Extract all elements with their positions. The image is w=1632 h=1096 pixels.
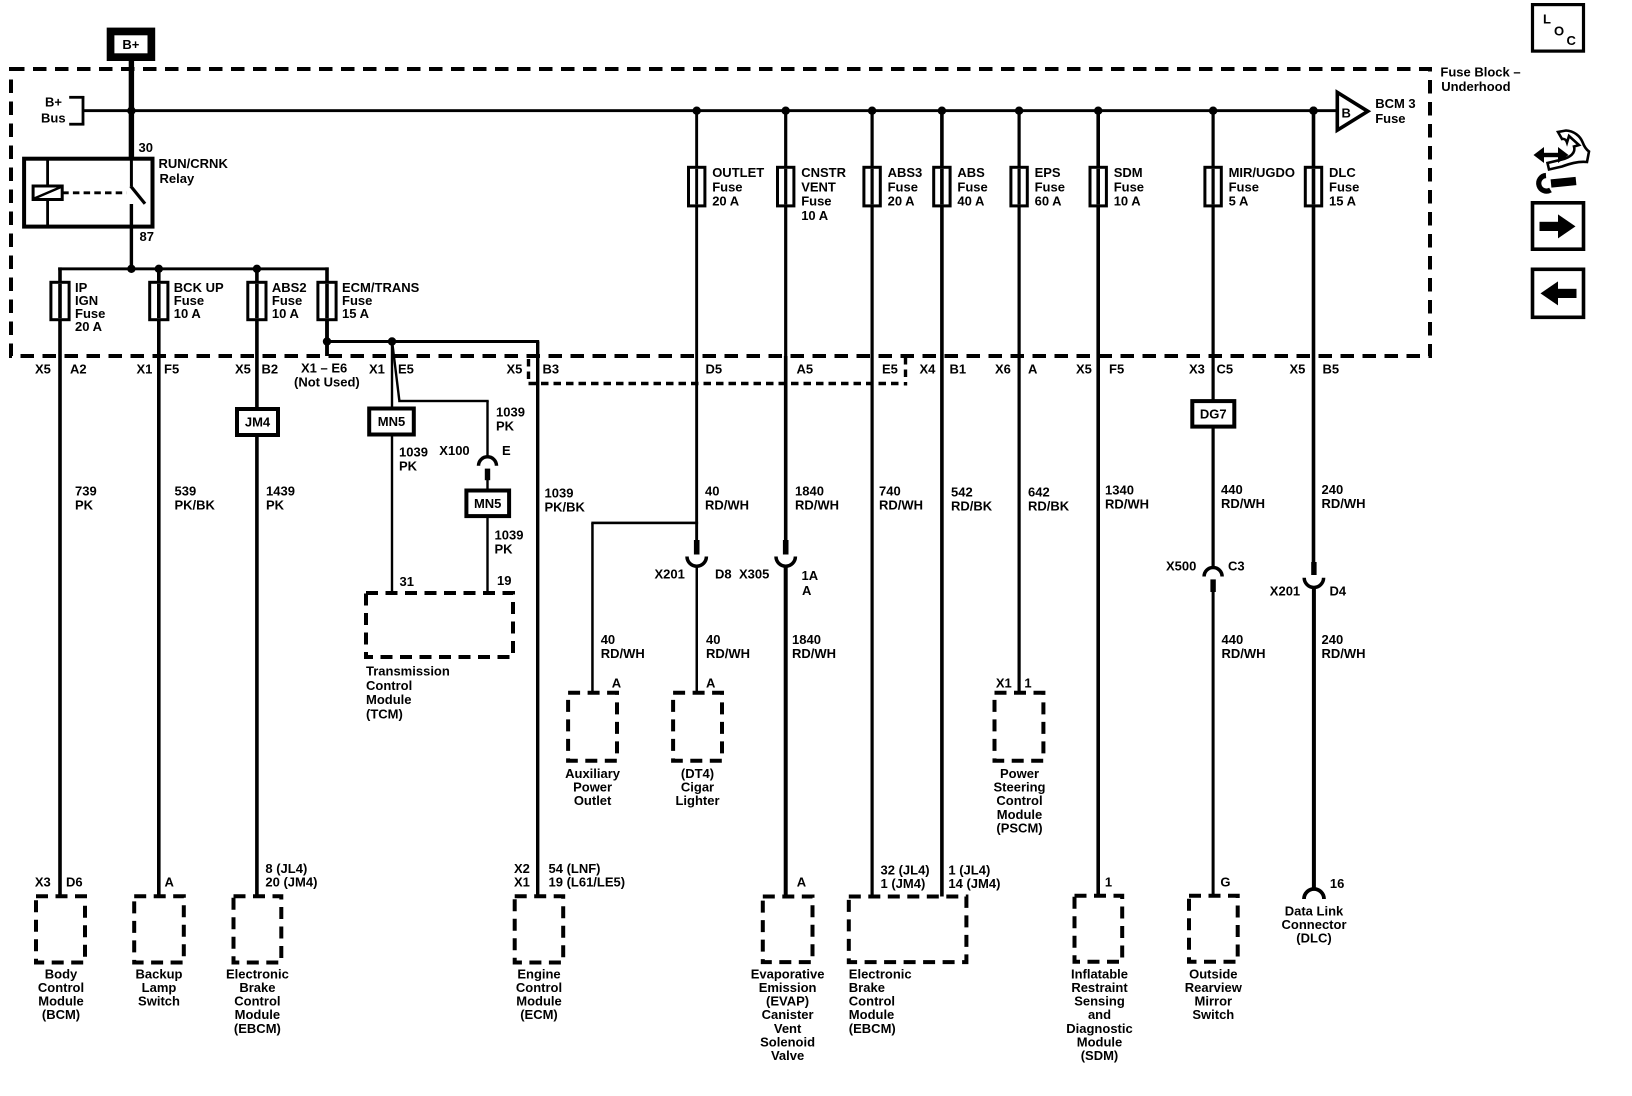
svg-text:Fuse: Fuse <box>1114 179 1144 194</box>
svg-text:539: 539 <box>175 484 197 499</box>
svg-text:Control: Control <box>366 678 412 693</box>
svg-text:OUTLET: OUTLET <box>712 165 764 180</box>
svg-text:A5: A5 <box>797 362 814 377</box>
svg-text:739: 739 <box>75 484 97 499</box>
svg-text:19: 19 <box>497 573 511 588</box>
svg-text:PK/BK: PK/BK <box>175 498 216 513</box>
svg-text:X5: X5 <box>35 362 51 377</box>
svg-text:F5: F5 <box>1109 362 1124 377</box>
svg-text:PK: PK <box>399 459 418 474</box>
svg-text:RD/BK: RD/BK <box>951 499 993 514</box>
svg-text:ABS: ABS <box>957 165 985 180</box>
svg-text:1840: 1840 <box>795 484 824 499</box>
svg-text:1439: 1439 <box>266 484 295 499</box>
svg-text:Relay: Relay <box>160 171 195 186</box>
svg-text:(EBCM): (EBCM) <box>234 1021 281 1036</box>
svg-text:PK/BK: PK/BK <box>545 500 586 515</box>
svg-text:EPS: EPS <box>1035 165 1061 180</box>
svg-text:1A: 1A <box>802 568 819 583</box>
svg-text:Module: Module <box>366 692 412 707</box>
svg-text:X5: X5 <box>235 362 251 377</box>
svg-text:A: A <box>612 676 622 691</box>
svg-text:542: 542 <box>951 485 973 500</box>
svg-text:A: A <box>165 875 175 890</box>
svg-text:15 A: 15 A <box>342 306 370 321</box>
svg-text:E5: E5 <box>398 362 414 377</box>
svg-text:31: 31 <box>400 574 414 589</box>
svg-text:B: B <box>1342 106 1351 121</box>
svg-text:240: 240 <box>1322 482 1344 497</box>
svg-text:(ECM): (ECM) <box>520 1007 558 1022</box>
svg-text:F5: F5 <box>164 362 179 377</box>
svg-text:X4: X4 <box>920 362 937 377</box>
svg-text:L: L <box>1543 11 1551 26</box>
svg-text:Underhood: Underhood <box>1441 79 1510 94</box>
svg-text:PK: PK <box>496 419 515 434</box>
svg-text:Fuse Block –: Fuse Block – <box>1440 65 1520 80</box>
svg-text:A: A <box>802 583 812 598</box>
svg-text:440: 440 <box>1221 482 1243 497</box>
svg-text:1039: 1039 <box>496 405 525 420</box>
svg-text:1039: 1039 <box>495 528 524 543</box>
svg-text:(PSCM): (PSCM) <box>996 820 1042 835</box>
svg-text:X5: X5 <box>1076 362 1092 377</box>
svg-text:60 A: 60 A <box>1035 194 1063 209</box>
svg-text:E5: E5 <box>882 362 898 377</box>
svg-text:10 A: 10 A <box>174 306 202 321</box>
svg-text:G: G <box>1220 875 1230 890</box>
svg-text:X100: X100 <box>439 443 469 458</box>
svg-text:(EBCM): (EBCM) <box>849 1021 896 1036</box>
svg-text:1039: 1039 <box>399 445 428 460</box>
svg-text:E: E <box>502 443 511 458</box>
svg-text:X305: X305 <box>739 567 769 582</box>
svg-text:RD/WH: RD/WH <box>601 646 645 661</box>
svg-text:X5: X5 <box>1290 362 1306 377</box>
svg-text:1840: 1840 <box>792 632 821 647</box>
svg-text:B+: B+ <box>45 95 62 110</box>
svg-text:RD/WH: RD/WH <box>795 498 839 513</box>
svg-text:MIR/UGDO: MIR/UGDO <box>1229 165 1295 180</box>
svg-text:642: 642 <box>1028 485 1050 500</box>
svg-text:240: 240 <box>1322 632 1344 647</box>
svg-text:Fuse: Fuse <box>1035 179 1065 194</box>
svg-text:20 A: 20 A <box>888 194 916 209</box>
svg-text:(SDM): (SDM) <box>1081 1048 1119 1063</box>
svg-text:RD/WH: RD/WH <box>879 498 923 513</box>
svg-text:ABS3: ABS3 <box>888 165 923 180</box>
svg-text:X201: X201 <box>1270 583 1300 598</box>
svg-text:A: A <box>1028 362 1038 377</box>
svg-text:1: 1 <box>1105 875 1112 890</box>
svg-text:VENT: VENT <box>801 179 836 194</box>
svg-text:RD/WH: RD/WH <box>792 646 836 661</box>
svg-text:Outlet: Outlet <box>574 793 612 808</box>
svg-text:Lighter: Lighter <box>675 793 719 808</box>
svg-text:RD/WH: RD/WH <box>1105 497 1149 512</box>
svg-text:PK: PK <box>495 542 514 557</box>
svg-text:X5: X5 <box>507 362 523 377</box>
svg-text:Fuse: Fuse <box>712 179 742 194</box>
svg-text:Fuse: Fuse <box>1329 179 1359 194</box>
svg-text:C3: C3 <box>1228 559 1245 574</box>
svg-text:RD/WH: RD/WH <box>706 646 750 661</box>
svg-text:B5: B5 <box>1323 362 1340 377</box>
svg-text:SDM: SDM <box>1114 165 1143 180</box>
svg-text:X500: X500 <box>1166 559 1196 574</box>
svg-text:DLC: DLC <box>1329 165 1356 180</box>
svg-text:D8: D8 <box>715 567 732 582</box>
svg-text:87: 87 <box>140 229 154 244</box>
svg-text:5 A: 5 A <box>1229 194 1249 209</box>
svg-text:DG7: DG7 <box>1200 406 1227 421</box>
svg-text:Switch: Switch <box>138 994 180 1009</box>
svg-text:B3: B3 <box>543 362 560 377</box>
svg-text:40: 40 <box>706 632 720 647</box>
svg-text:440: 440 <box>1222 632 1244 647</box>
svg-text:40: 40 <box>705 484 719 499</box>
svg-text:O: O <box>1554 23 1564 38</box>
svg-text:Fuse: Fuse <box>957 179 987 194</box>
svg-text:X1: X1 <box>137 362 153 377</box>
svg-text:(DLC): (DLC) <box>1296 931 1331 946</box>
svg-text:MN5: MN5 <box>378 414 405 429</box>
svg-text:19 (L61/LE5): 19 (L61/LE5) <box>549 875 626 890</box>
svg-text:RD/BK: RD/BK <box>1028 499 1070 514</box>
svg-text:B+: B+ <box>122 37 139 52</box>
svg-text:CNSTR: CNSTR <box>801 165 846 180</box>
svg-text:10 A: 10 A <box>1114 194 1142 209</box>
svg-text:D5: D5 <box>706 362 723 377</box>
svg-text:Transmission: Transmission <box>366 664 450 679</box>
svg-text:B2: B2 <box>262 362 279 377</box>
svg-text:1340: 1340 <box>1105 483 1134 498</box>
svg-text:A: A <box>706 676 716 691</box>
svg-text:15 A: 15 A <box>1329 194 1357 209</box>
svg-text:10 A: 10 A <box>801 208 829 223</box>
svg-text:RD/WH: RD/WH <box>1222 646 1266 661</box>
svg-text:D6: D6 <box>66 875 83 890</box>
svg-text:Valve: Valve <box>771 1048 804 1063</box>
svg-text:(BCM): (BCM) <box>42 1007 80 1022</box>
svg-text:(Not Used): (Not Used) <box>294 374 360 389</box>
svg-text:20 (JM4): 20 (JM4) <box>265 875 317 890</box>
svg-text:PK: PK <box>266 498 285 513</box>
svg-text:X1: X1 <box>514 875 530 890</box>
svg-text:740: 740 <box>879 484 901 499</box>
svg-text:30: 30 <box>139 140 153 155</box>
svg-text:16: 16 <box>1330 876 1344 891</box>
svg-text:JM4: JM4 <box>245 415 271 430</box>
svg-text:X3: X3 <box>35 875 51 890</box>
svg-text:X1: X1 <box>369 362 385 377</box>
svg-text:RUN/CRNK: RUN/CRNK <box>159 156 229 171</box>
svg-text:Fuse: Fuse <box>888 179 918 194</box>
svg-text:X201: X201 <box>655 567 685 582</box>
svg-text:C: C <box>1567 33 1577 48</box>
svg-text:C5: C5 <box>1217 362 1234 377</box>
svg-text:20 A: 20 A <box>712 194 740 209</box>
svg-text:40 A: 40 A <box>957 194 985 209</box>
svg-text:D4: D4 <box>1330 584 1347 599</box>
svg-text:RD/WH: RD/WH <box>705 498 749 513</box>
svg-text:1 (JM4): 1 (JM4) <box>881 876 926 891</box>
svg-text:X3: X3 <box>1189 362 1205 377</box>
svg-text:PK: PK <box>75 498 94 513</box>
svg-text:A2: A2 <box>70 362 87 377</box>
svg-text:BCM 3: BCM 3 <box>1375 96 1415 111</box>
svg-text:MN5: MN5 <box>474 496 501 511</box>
svg-text:40: 40 <box>601 632 615 647</box>
svg-text:1: 1 <box>1024 676 1031 691</box>
svg-text:B1: B1 <box>950 362 967 377</box>
svg-text:X6: X6 <box>995 362 1011 377</box>
svg-text:RD/WH: RD/WH <box>1221 496 1265 511</box>
svg-text:RD/WH: RD/WH <box>1322 496 1366 511</box>
svg-text:14 (JM4): 14 (JM4) <box>948 876 1000 891</box>
svg-text:X1: X1 <box>996 676 1012 691</box>
svg-text:10 A: 10 A <box>272 306 300 321</box>
svg-text:(TCM): (TCM) <box>366 707 403 722</box>
svg-text:Fuse: Fuse <box>1229 179 1259 194</box>
svg-text:20 A: 20 A <box>75 319 103 334</box>
svg-text:RD/WH: RD/WH <box>1322 646 1366 661</box>
svg-text:Fuse: Fuse <box>1375 111 1405 126</box>
svg-text:Switch: Switch <box>1192 1007 1234 1022</box>
svg-text:Bus: Bus <box>41 111 66 126</box>
svg-text:1039: 1039 <box>545 486 574 501</box>
svg-text:A: A <box>797 875 807 890</box>
svg-text:Fuse: Fuse <box>801 194 831 209</box>
